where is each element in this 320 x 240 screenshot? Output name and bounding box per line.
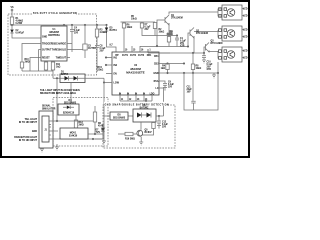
- LED module A: [222, 5, 242, 20]
- svg-text:10kΩ: 10kΩ: [131, 19, 137, 21]
- wire: [88, 133, 95, 135]
- node junction: [94, 133, 95, 134]
- svg-text:25V: 25V: [162, 127, 167, 129]
- wire: [188, 33, 190, 47]
- wire: [63, 25, 65, 26]
- wire: [157, 20, 165, 46]
- MOV1 box: [60, 128, 88, 139]
- node junction: [63, 24, 64, 25]
- svg-text:S14K30: S14K30: [69, 135, 78, 138]
- wire: [12, 33, 41, 38]
- wire: [49, 138, 104, 140]
- svg-text:SIMULATOR: SIMULATOR: [42, 108, 56, 111]
- wire: [217, 62, 219, 73]
- svg-text:50% DUTY CYCLE GENERATOR: 50% DUTY CYCLE GENERATOR: [33, 12, 77, 15]
- svg-text:25V: 25V: [168, 87, 173, 89]
- svg-text:ICM7555A: ICM7555A: [48, 34, 60, 37]
- svg-text:DTC114EM: DTC114EM: [196, 32, 208, 35]
- capacitor C9: [163, 83, 167, 85]
- svg-text:CB1: CB1: [154, 56, 159, 58]
- svg-text:DISCHARGE: DISCHARGE: [52, 43, 66, 46]
- node junction: [183, 72, 184, 73]
- node junction: [92, 138, 93, 139]
- wire: [39, 44, 42, 58]
- svg-text:LED C+: LED C+: [243, 51, 250, 53]
- wire: [118, 133, 137, 135]
- wire: [70, 83, 72, 105]
- svg-text:1kΩ: 1kΩ: [161, 68, 166, 70]
- svg-text:10kΩ: 10kΩ: [127, 27, 133, 29]
- node junction: [106, 24, 107, 25]
- wire: [49, 125, 51, 136]
- capacitor C8: [95, 45, 99, 47]
- wire: [75, 115, 77, 120]
- resistor R16: [125, 132, 133, 135]
- diode D2: [10, 30, 13, 34]
- wire: [103, 83, 105, 117]
- wire: [209, 51, 222, 59]
- node junction: [105, 57, 106, 58]
- ground: [55, 144, 59, 150]
- 50% duty cycle generator dashed enclosure: [8, 14, 97, 75]
- wire: [140, 46, 188, 48]
- wire: [142, 122, 154, 135]
- svg-text:DTC114EM: DTC114EM: [211, 42, 223, 45]
- svg-text:16V: 16V: [187, 92, 192, 94]
- resistor R14: [93, 112, 96, 122]
- svg-text:10kΩ: 10kΩ: [196, 68, 202, 70]
- svg-text:DTA114EM: DTA114EM: [171, 17, 183, 20]
- wire: [107, 25, 117, 52]
- svg-text:IN: IN: [135, 94, 138, 96]
- wire: [123, 22, 125, 52]
- node VS: [11, 9, 13, 11]
- wire: [120, 95, 152, 101]
- svg-text:BAT54: BAT54: [61, 73, 69, 76]
- wire: [159, 63, 184, 65]
- wire: [85, 78, 104, 82]
- svg-text:LOW: LOW: [114, 83, 120, 85]
- node junction: [167, 72, 168, 73]
- svg-text:OUT1: OUT1: [122, 55, 129, 57]
- svg-text:DB1: DB1: [147, 55, 152, 57]
- diode D7: [101, 128, 104, 131]
- wire: [204, 47, 206, 53]
- wire: [45, 70, 47, 71]
- ground: [212, 73, 216, 78]
- node junction: [167, 63, 168, 64]
- wire: [95, 134, 103, 139]
- svg-text:BRAKE/TURN INPUT AVAILABLE: BRAKE/TURN INPUT AVAILABLE: [40, 92, 77, 95]
- diode D1 dual package: [60, 74, 85, 83]
- wire: [140, 137, 142, 142]
- svg-text:TAIL LIGHT INPUT BLOCKED WHEN: TAIL LIGHT INPUT BLOCKED WHEN: [40, 89, 80, 92]
- node junction: [176, 35, 177, 36]
- wire: [103, 116, 105, 141]
- border frame: [1, 1, 249, 157]
- transistor Q5: [137, 130, 143, 136]
- svg-text:MAX1501ETE: MAX1501ETE: [126, 70, 145, 74]
- svg-text:BZX84C10: BZX84C10: [63, 112, 75, 115]
- capacitor C12: [157, 121, 161, 123]
- wire: [159, 81, 165, 83]
- resistor R1: [10, 17, 13, 25]
- svg-text:0.047µF: 0.047µF: [16, 32, 25, 35]
- node junction: [217, 72, 218, 73]
- wire: [132, 46, 148, 52]
- svg-text:0.25W: 0.25W: [16, 23, 23, 25]
- wire battery loop: [184, 73, 218, 110]
- node junction: [187, 46, 188, 47]
- battery detect dashed enclosure: [103, 105, 175, 148]
- diode D4 symbol: [67, 106, 70, 110]
- node junction: [96, 24, 97, 25]
- LED module B: [222, 26, 242, 41]
- svg-text:TAIL LIGHT: TAIL LIGHT: [25, 118, 38, 121]
- node junction: [105, 64, 106, 65]
- battery cell C11: [191, 73, 195, 110]
- svg-text:22kΩ: 22kΩ: [98, 70, 104, 72]
- wire: [194, 30, 222, 38]
- op-amp U1: [41, 26, 67, 61]
- wire: [192, 53, 194, 73]
- wire rail: [121, 21, 156, 23]
- svg-text:TVS: TVS: [96, 132, 101, 134]
- wire: [147, 49, 149, 53]
- wire: [101, 129, 104, 131]
- resistor R10b: [20, 62, 23, 68]
- svg-text:GND: GND: [153, 73, 158, 75]
- svg-text:4.99kΩ: 4.99kΩ: [100, 31, 108, 34]
- resistor R8: [191, 64, 194, 70]
- diode D6 dual package: [133, 109, 156, 122]
- ground: [202, 60, 206, 63]
- capacitor C4: [70, 29, 74, 31]
- svg-text:25V: 25V: [74, 33, 79, 35]
- input blocking dashed enclosure: [53, 98, 108, 147]
- resistor R6b: [140, 23, 143, 28]
- wire: [11, 11, 13, 17]
- wire: [49, 120, 93, 122]
- wire: [104, 74, 112, 83]
- wire: [106, 58, 112, 66]
- wire: [67, 44, 85, 58]
- wire: [72, 44, 85, 58]
- wire: [94, 106, 96, 134]
- svg-text:GND: GND: [42, 37, 47, 39]
- svg-text:OUTPUT: OUTPUT: [42, 50, 52, 52]
- node junction: [56, 120, 57, 121]
- node junction: [203, 52, 204, 53]
- svg-text:X7R: X7R: [180, 46, 185, 48]
- svg-text:IN: IN: [119, 94, 122, 96]
- svg-text:X7R: X7R: [207, 69, 212, 71]
- wire: [159, 115, 164, 117]
- wire: [168, 30, 170, 47]
- wire: [169, 12, 218, 15]
- node junction: [183, 63, 184, 64]
- wire: [157, 35, 177, 37]
- svg-text:2MΩ: 2MΩ: [79, 125, 84, 127]
- wire: [71, 25, 73, 29]
- wire: [154, 29, 156, 36]
- capacitor C5 box: [83, 44, 87, 50]
- wire rail: [12, 24, 107, 26]
- transistor Q1: [165, 15, 169, 25]
- svg-text:25V: 25V: [100, 51, 105, 53]
- wire: [218, 9, 222, 16]
- wire: [96, 47, 98, 72]
- svg-text:IN: IN: [127, 94, 130, 96]
- svg-text:BRAKE/TURN LIGHT: BRAKE/TURN LIGHT: [14, 136, 37, 139]
- wire: [11, 25, 13, 29]
- wire: [75, 128, 77, 129]
- svg-text:TRIGGER: TRIGGER: [42, 44, 53, 46]
- node junction: [192, 52, 193, 53]
- svg-text:4148: 4148: [98, 125, 104, 128]
- wire: [52, 70, 54, 78]
- svg-text:2MΩ: 2MΩ: [25, 62, 30, 64]
- svg-text:IN TO 180 INPUT: IN TO 180 INPUT: [19, 122, 38, 124]
- svg-text:SD103AWS: SD103AWS: [113, 117, 126, 120]
- wire: [159, 88, 164, 116]
- svg-text:10kΩ: 10kΩ: [159, 32, 165, 34]
- svg-text:IN TO 180 INPUT: IN TO 180 INPUT: [19, 140, 38, 142]
- label battery detect: [104, 102, 166, 106]
- svg-text:1kΩ: 1kΩ: [56, 67, 61, 69]
- transistor Q2: [190, 28, 194, 39]
- wire: [142, 22, 157, 36]
- node junction: [145, 100, 146, 101]
- svg-text:LED B-: LED B-: [243, 37, 250, 39]
- wire: [140, 122, 142, 130]
- wire rail: [159, 72, 219, 74]
- svg-text:GND: GND: [32, 131, 37, 133]
- svg-text:OUT3: OUT3: [138, 55, 145, 57]
- svg-text:LED C-: LED C-: [243, 58, 250, 60]
- LED module C: [222, 47, 242, 62]
- wire: [71, 31, 73, 44]
- svg-text:25V: 25V: [145, 29, 150, 31]
- svg-text:RESET: RESET: [42, 58, 50, 60]
- node junction: [156, 45, 157, 46]
- resistor R13: [74, 120, 77, 128]
- wire: [96, 25, 98, 45]
- label 50% duty cycle generator: [32, 11, 76, 15]
- IC U2: [112, 52, 159, 95]
- resistor R9: [167, 37, 170, 43]
- svg-text:LC: LC: [155, 88, 158, 90]
- svg-text:LDO: LDO: [150, 94, 155, 96]
- wire: [104, 115, 133, 117]
- resistor R5b: [122, 23, 125, 28]
- wire: [21, 68, 23, 71]
- capacitor C10: [202, 53, 206, 60]
- svg-text:GND SNAP/DOUBLE BATTERY DETECT: GND SNAP/DOUBLE BATTERY DETECTION: [105, 103, 170, 106]
- node junction: [84, 24, 85, 25]
- resistor R12: [44, 62, 47, 70]
- wire: [41, 148, 43, 150]
- ground: [163, 85, 167, 90]
- diode D4 box: [58, 104, 79, 115]
- ground: [139, 142, 143, 145]
- node junction: [11, 24, 12, 25]
- node junction: [71, 24, 72, 25]
- wire: [193, 38, 195, 53]
- svg-text:OUTPA: OUTPA: [88, 47, 96, 50]
- ground: [157, 123, 161, 128]
- wire: [159, 52, 170, 54]
- resistor R4b: [166, 64, 169, 70]
- wire: [120, 100, 152, 102]
- diode D8 box: [110, 112, 128, 120]
- wire: [53, 78, 60, 121]
- wire: [167, 64, 169, 74]
- connector J1 outer: [39, 111, 53, 148]
- svg-text:LED B+: LED B+: [243, 30, 250, 32]
- svg-text:BC847: BC847: [145, 131, 153, 134]
- node junction: [158, 115, 159, 116]
- wire bus: [22, 70, 53, 72]
- svg-text:TIMEOUT: TIMEOUT: [56, 58, 67, 60]
- transistor Q3: [206, 43, 210, 53]
- wire: [156, 116, 159, 121]
- capacitor C1: [175, 36, 179, 47]
- wire: [84, 25, 86, 44]
- svg-text:CB2: CB2: [154, 64, 159, 66]
- svg-text:SIGNAL: SIGNAL: [42, 105, 51, 108]
- diode D5: [105, 28, 108, 32]
- wire: [22, 44, 39, 72]
- ground: [102, 141, 106, 144]
- svg-text:EN: EN: [114, 74, 118, 76]
- ground: [40, 149, 44, 152]
- wire: [46, 61, 53, 62]
- resistor R11: [51, 62, 54, 70]
- wire: [145, 101, 147, 109]
- svg-text:SD103AWS: SD103AWS: [64, 102, 77, 105]
- svg-text:LED A+: LED A+: [243, 8, 250, 11]
- wire: [49, 130, 58, 132]
- svg-text:MOV1: MOV1: [70, 133, 77, 135]
- svg-text:OUT2: OUT2: [130, 55, 137, 57]
- node junction: [103, 82, 104, 83]
- svg-text:RSA: RSA: [154, 80, 159, 83]
- wire: [148, 52, 204, 54]
- svg-text:BAT54C: BAT54C: [140, 107, 149, 110]
- resistor R3: [95, 29, 98, 37]
- svg-text:VS: VS: [10, 7, 14, 9]
- svg-text:IN: IN: [143, 94, 146, 96]
- connector J1 inner: [42, 116, 49, 142]
- svg-text:R16 2MΩ: R16 2MΩ: [125, 138, 135, 140]
- svg-text:BAT54: BAT54: [110, 29, 118, 32]
- svg-text:THRESHOLD: THRESHOLD: [52, 50, 67, 52]
- wire: [168, 25, 170, 30]
- resistor R15: [152, 123, 155, 129]
- svg-text:LED A-: LED A-: [243, 15, 250, 18]
- resistor R2: [153, 23, 156, 29]
